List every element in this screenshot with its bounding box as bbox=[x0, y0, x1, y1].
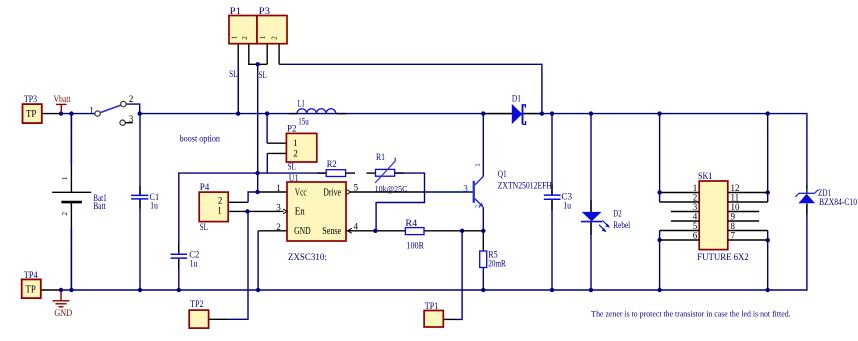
wire P3 pin1 stub bbox=[266, 44, 268, 65]
svg-text:2: 2 bbox=[474, 204, 482, 208]
wire SK1 right bracket top bbox=[767, 114, 769, 202]
zener ZD1 cathode bar bbox=[795, 190, 818, 197]
wire C2 column bottom bbox=[178, 259, 180, 290]
svg-text:TP3: TP3 bbox=[24, 95, 37, 105]
battery Bat1 short plate bbox=[61, 201, 82, 204]
svg-text:2: 2 bbox=[218, 195, 223, 205]
svg-text:P2: P2 bbox=[287, 125, 297, 135]
svg-text:TP4: TP4 bbox=[24, 271, 38, 281]
wire SK1 pin 1 bbox=[660, 192, 700, 194]
battery Bat1 long plate bbox=[52, 191, 91, 193]
wire C3 pin black bottom bbox=[551, 200, 553, 211]
svg-text:ZXTN25012EFH: ZXTN25012EFH bbox=[498, 182, 552, 192]
junction bbox=[589, 111, 593, 115]
svg-text:2: 2 bbox=[61, 212, 69, 216]
svg-text:3: 3 bbox=[693, 202, 698, 212]
connector P2 bbox=[286, 133, 316, 162]
wire battery blue join top bbox=[70, 114, 72, 165]
wire L1 right pin bbox=[336, 113, 347, 115]
wire SK1 pin 4 stub bbox=[671, 220, 699, 222]
connector SK1 bbox=[699, 181, 728, 250]
wire L1 left pin bbox=[289, 113, 297, 115]
transistor Q1 emitter arrowhead bbox=[479, 203, 484, 208]
junction bbox=[256, 288, 260, 292]
wire P4 pin2 stub bbox=[228, 201, 248, 203]
junction bbox=[657, 288, 661, 292]
wire switch pin2 to top rail bbox=[126, 104, 140, 114]
wire Q1 emitter to sense bbox=[482, 207, 484, 231]
svg-text:GND: GND bbox=[294, 226, 311, 237]
junction bbox=[481, 229, 485, 233]
svg-text:1: 1 bbox=[61, 176, 69, 180]
connector P3 bbox=[257, 16, 287, 44]
junction bbox=[766, 288, 770, 292]
capacitor C2 bbox=[171, 254, 188, 258]
U1 En pin arrow bbox=[283, 209, 287, 214]
wire P3 pin2 long run to D1 cathode bbox=[279, 64, 542, 113]
svg-text:Drive: Drive bbox=[323, 188, 341, 199]
svg-text:U1: U1 bbox=[289, 174, 299, 184]
wire TP2 pin bbox=[209, 318, 228, 320]
wire D1 anode pin bbox=[483, 113, 512, 115]
resistor R2 bbox=[326, 170, 345, 177]
wire TP4 pin bbox=[41, 289, 61, 291]
wire P2 pin2 stub bbox=[267, 152, 286, 154]
wire bottom rail bbox=[61, 204, 807, 290]
zener ZD1 pin bottom black bbox=[806, 204, 808, 216]
wire TP1 riser bbox=[455, 231, 462, 320]
svg-text:5: 5 bbox=[354, 183, 359, 193]
svg-text:9: 9 bbox=[731, 211, 736, 221]
resistor R5 bbox=[480, 251, 487, 268]
wire top rail bbox=[140, 114, 807, 189]
svg-text:GND: GND bbox=[54, 309, 72, 319]
junction bbox=[766, 190, 770, 194]
junction bbox=[550, 288, 554, 292]
transistor Q1 collector bbox=[475, 177, 483, 185]
wire D2 column top bbox=[590, 114, 592, 212]
diode D1 schottky bottom hook bbox=[523, 121, 526, 124]
junction bbox=[69, 288, 73, 292]
wire SL drop to Vcc bbox=[257, 64, 259, 192]
wire P2 pin1 riser bbox=[266, 114, 268, 144]
switch lever bbox=[100, 105, 121, 113]
wire R1 right pin black bbox=[395, 172, 404, 174]
junction bbox=[657, 190, 661, 194]
junction bbox=[59, 288, 63, 292]
svg-text:Vcc: Vcc bbox=[295, 188, 307, 199]
junction bbox=[550, 111, 554, 115]
svg-text:D2: D2 bbox=[613, 209, 622, 219]
wire SK1 pin 8 bbox=[728, 230, 768, 232]
svg-text:L1: L1 bbox=[298, 100, 305, 110]
svg-text:1: 1 bbox=[217, 205, 222, 215]
svg-text:8: 8 bbox=[731, 221, 736, 231]
testpoint TP3 bbox=[23, 104, 42, 123]
svg-text:SL: SL bbox=[200, 223, 208, 233]
svg-text:1: 1 bbox=[230, 35, 238, 39]
svg-text:100R: 100R bbox=[406, 241, 424, 251]
wire SK1 pin 11 bbox=[728, 201, 768, 203]
wire Q1 collector riser bbox=[482, 114, 484, 177]
LED D2 cathode bar bbox=[581, 221, 602, 223]
wire C2 pin black top bbox=[178, 243, 180, 253]
svg-text:1u: 1u bbox=[190, 260, 198, 270]
resistor R1 bbox=[376, 169, 395, 176]
wire SK1 pin 6 bbox=[660, 239, 700, 241]
svg-text:ZXSC310:: ZXSC310: bbox=[288, 253, 327, 263]
junction bbox=[766, 238, 770, 242]
svg-text:6: 6 bbox=[693, 230, 698, 240]
svg-text:P3: P3 bbox=[259, 7, 271, 17]
switch pin3 circle bbox=[120, 120, 125, 125]
junction bbox=[69, 111, 73, 115]
svg-text:1u: 1u bbox=[150, 202, 158, 212]
wire P3 pin2 drop bbox=[278, 44, 280, 65]
svg-text:2: 2 bbox=[241, 36, 249, 40]
svg-text:boost option: boost option bbox=[180, 133, 221, 143]
svg-text:TP1: TP1 bbox=[425, 302, 439, 312]
junction bbox=[138, 111, 142, 115]
svg-text:1: 1 bbox=[276, 183, 281, 193]
wire C3 column top bbox=[551, 114, 553, 195]
junction bbox=[245, 209, 249, 213]
svg-text:D1: D1 bbox=[512, 95, 521, 105]
LED D2 emission arrow 2 bbox=[599, 225, 605, 231]
wire SK1 pin 3 stub bbox=[671, 211, 699, 213]
IC U1 ZXSC310 bbox=[287, 182, 346, 241]
diode D1 cathode bar bbox=[522, 104, 524, 124]
wire SK1 right bracket bottom bbox=[767, 231, 769, 291]
svg-text:The zener is to protect the tr: The zener is to protect the transistor i… bbox=[591, 310, 790, 319]
wire R5 to bottom rail bbox=[482, 268, 484, 291]
wire C1 column bottom bbox=[139, 200, 141, 291]
svg-text:SL: SL bbox=[229, 70, 237, 80]
zener ZD1 triangle bbox=[798, 194, 815, 203]
wire battery blue join bottom bbox=[70, 228, 72, 290]
svg-text:SK1: SK1 bbox=[698, 172, 713, 182]
wire P1 pin1 drop bbox=[237, 44, 239, 114]
junction bbox=[138, 288, 142, 292]
diode D1 triangle bbox=[512, 104, 522, 124]
wire SK1 pin 2 bbox=[660, 201, 700, 203]
junction bbox=[255, 171, 259, 175]
svg-text:2: 2 bbox=[693, 192, 698, 202]
junction bbox=[373, 229, 377, 233]
wire SK1 pin 10 stub bbox=[728, 211, 759, 213]
svg-text:7: 7 bbox=[731, 230, 736, 240]
svg-text:3: 3 bbox=[129, 114, 134, 124]
testpoint TP1 bbox=[424, 311, 443, 328]
wire P1 pin1 drop blue part bbox=[237, 62, 239, 114]
svg-text:FUTURE 6X2: FUTURE 6X2 bbox=[697, 253, 749, 263]
svg-text:TP: TP bbox=[26, 109, 37, 120]
wire C3 column bottom bbox=[551, 200, 553, 290]
junction bbox=[265, 111, 269, 115]
svg-text:15u: 15u bbox=[298, 118, 309, 128]
U1 Sense pin arrow bbox=[348, 228, 352, 233]
wire U1 GND pin2 stub bbox=[258, 230, 287, 232]
wire drive row black part bbox=[350, 191, 426, 193]
power symbol Vbatt bbox=[56, 104, 67, 113]
wire P1 pin2 stub bbox=[249, 44, 267, 65]
junction bbox=[481, 288, 485, 292]
wire P4 pin2 to Vcc node bbox=[248, 192, 257, 202]
svg-text:1: 1 bbox=[89, 105, 94, 115]
testpoint TP2 bbox=[189, 310, 208, 328]
switch pin1 circle bbox=[95, 111, 100, 116]
svg-text:3: 3 bbox=[463, 183, 468, 193]
wire SK1 left bracket bottom bbox=[659, 231, 661, 291]
wire D2 pin black bbox=[590, 200, 592, 212]
wire D2 pin black bottom bbox=[590, 222, 592, 235]
svg-text:4: 4 bbox=[354, 221, 359, 231]
transistor Q1 emitter bbox=[475, 199, 482, 206]
junction bbox=[657, 238, 661, 242]
svg-text:P1: P1 bbox=[230, 7, 242, 17]
wire sense row bbox=[346, 230, 483, 232]
junction bbox=[256, 62, 260, 66]
wire TP3 to Vbatt node (pin) bbox=[42, 113, 61, 115]
LED D2 emission arrow 1 head bbox=[605, 224, 610, 228]
svg-text:10k@25C: 10k@25C bbox=[375, 184, 408, 194]
connector P4 bbox=[199, 192, 228, 222]
U1 Drive pin arrow bbox=[347, 190, 351, 195]
junction bbox=[177, 288, 181, 292]
ground bbox=[53, 290, 70, 307]
wire C1 column top bbox=[139, 114, 141, 195]
wire U1 GND drop bbox=[257, 231, 259, 290]
resistor R1 NTC diagonal bbox=[375, 158, 395, 184]
svg-text:1u: 1u bbox=[563, 201, 571, 211]
svg-text:TP: TP bbox=[25, 285, 36, 296]
svg-text:R4: R4 bbox=[405, 219, 417, 229]
wire D1 cathode pin bbox=[523, 113, 542, 115]
svg-text:Q1: Q1 bbox=[498, 170, 507, 180]
wire U1 Vcc pin1 bbox=[258, 191, 288, 193]
LED D2 emission arrow 2 head bbox=[602, 228, 607, 232]
svg-text:5: 5 bbox=[693, 221, 698, 231]
wire Vbatt node to switch pin1 bbox=[61, 113, 95, 115]
wire SK1 pin 5 bbox=[660, 230, 700, 232]
wire TP2 riser bbox=[228, 211, 248, 319]
svg-text:1: 1 bbox=[693, 183, 698, 193]
connector P1 bbox=[229, 16, 257, 44]
wire SK1 pin 12 bbox=[728, 192, 768, 194]
testpoint TP4 bbox=[22, 279, 41, 298]
wire R1 return path bbox=[376, 173, 424, 231]
diode D1 schottky top hook bbox=[523, 105, 526, 108]
svg-text:2: 2 bbox=[276, 222, 281, 232]
wire battery column top bbox=[70, 114, 72, 193]
wire drive row to Q1 base bbox=[425, 191, 473, 193]
junction bbox=[481, 111, 485, 115]
svg-text:4: 4 bbox=[693, 211, 698, 221]
wire sense to R5 bbox=[482, 231, 484, 251]
wire SK1 left bracket top bbox=[659, 114, 661, 202]
svg-text:Batt: Batt bbox=[93, 202, 106, 212]
svg-text:2: 2 bbox=[129, 94, 134, 104]
svg-text:En: En bbox=[295, 206, 305, 217]
junction bbox=[236, 111, 240, 115]
svg-text:12: 12 bbox=[731, 183, 740, 193]
svg-text:Vbatt: Vbatt bbox=[54, 95, 71, 105]
svg-text:Sense: Sense bbox=[322, 226, 341, 237]
wire C1 pin black top bbox=[139, 186, 141, 195]
wire R2 left pin black bbox=[318, 172, 327, 174]
svg-text:TP2: TP2 bbox=[190, 300, 204, 310]
wire D2 column bottom bbox=[590, 222, 592, 290]
wire battery column bottom bbox=[70, 202, 72, 290]
svg-text:1: 1 bbox=[259, 35, 267, 39]
svg-text:BZX84-C10: BZX84-C10 bbox=[819, 197, 857, 207]
svg-text:P4: P4 bbox=[200, 183, 210, 193]
junction bbox=[540, 111, 544, 115]
wire SK1 pin 9 stub bbox=[728, 220, 759, 222]
wire P2 pin2 drop bbox=[266, 153, 268, 173]
svg-text:Rebel: Rebel bbox=[613, 221, 630, 231]
wire P2 pin1 stub bbox=[267, 142, 286, 144]
LED D2 triangle bbox=[582, 212, 602, 221]
capacitor C1 bbox=[131, 195, 148, 199]
switch pin2 circle bbox=[121, 101, 126, 106]
svg-text:20mR: 20mR bbox=[488, 259, 506, 269]
wire switch pin3 stub bbox=[125, 122, 133, 124]
junction bbox=[255, 190, 259, 194]
svg-text:11: 11 bbox=[731, 192, 740, 202]
junction bbox=[460, 229, 464, 233]
junction bbox=[589, 288, 593, 292]
wire C2 pin black bottom bbox=[178, 259, 180, 270]
wire TP1 pin bbox=[443, 318, 455, 320]
wire C3 pin black top bbox=[551, 185, 553, 195]
resistor R4 bbox=[405, 228, 424, 235]
svg-text:10: 10 bbox=[731, 202, 741, 212]
transistor Q1 base bar bbox=[473, 181, 475, 203]
wire R1 left pin black bbox=[367, 172, 376, 174]
wire En line P4 pin1 to U1 pin3 bbox=[228, 210, 283, 212]
svg-text:1: 1 bbox=[293, 138, 298, 148]
inductor L1 bbox=[297, 109, 336, 114]
LED D2 emission arrow 1 bbox=[603, 221, 609, 227]
zener ZD1 pin top black bbox=[806, 185, 808, 193]
junction bbox=[766, 111, 770, 115]
junction bbox=[657, 111, 661, 115]
svg-text:R1: R1 bbox=[376, 153, 385, 163]
svg-text:SL: SL bbox=[288, 162, 296, 172]
svg-text:R2: R2 bbox=[327, 160, 337, 170]
wire C1 pin black bottom bbox=[139, 200, 141, 209]
wire C2 riser and SL horizontal bbox=[179, 173, 326, 253]
wire R2 right pin black bbox=[346, 172, 355, 174]
svg-text:SL: SL bbox=[259, 71, 267, 81]
svg-text:1: 1 bbox=[474, 163, 482, 167]
wire SK1 pin 7 bbox=[728, 239, 768, 241]
svg-text:2: 2 bbox=[293, 149, 298, 159]
junction bbox=[59, 111, 63, 115]
capacitor C3 bbox=[544, 195, 561, 199]
svg-text:2: 2 bbox=[270, 36, 278, 40]
svg-text:3: 3 bbox=[276, 202, 281, 212]
